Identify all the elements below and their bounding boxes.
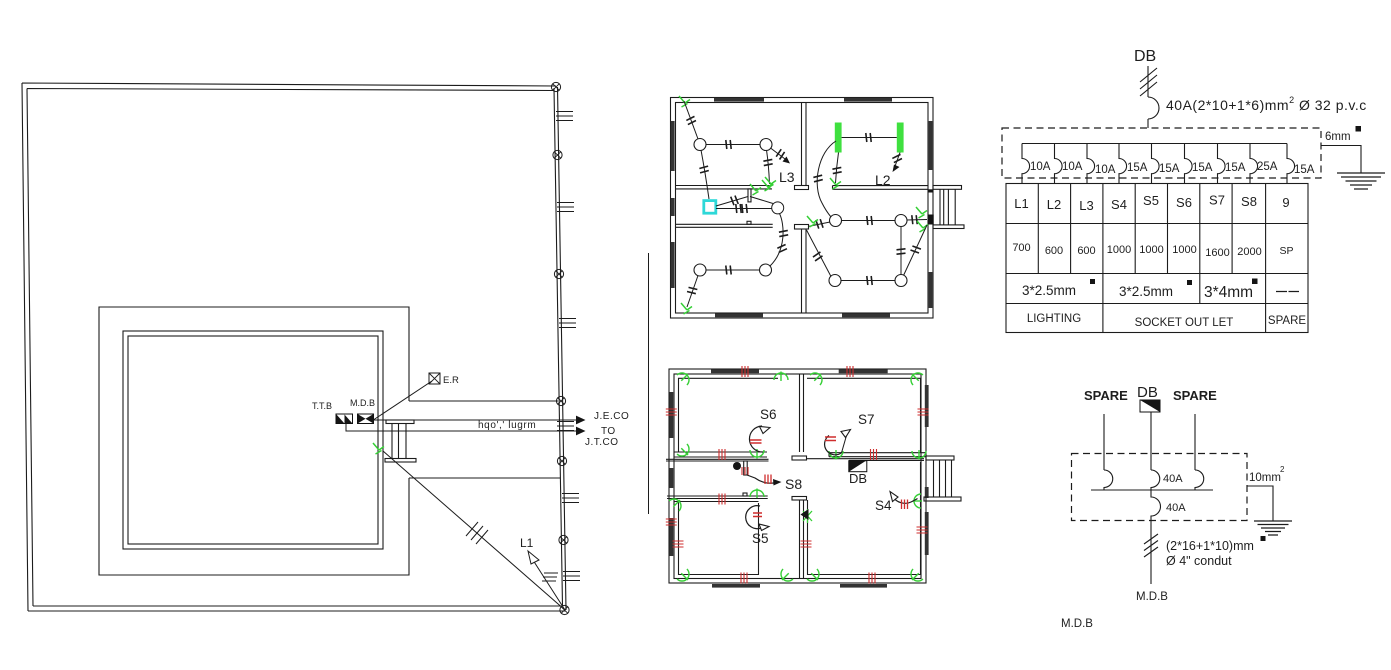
plan A stairs <box>933 186 964 229</box>
branch breaker 5 <box>1152 144 1160 184</box>
red tick at jamb <box>742 467 748 475</box>
tick <box>897 249 906 254</box>
fence conduit tick 2 <box>557 203 574 212</box>
earth symbol <box>1337 173 1385 189</box>
DB dashed enclosure <box>1002 128 1321 178</box>
svg-text:S6: S6 <box>760 407 777 422</box>
triple slash on L1 diagonal <box>466 522 488 544</box>
wire box to lamp A3 <box>716 208 772 210</box>
site stairs ladder <box>385 420 416 462</box>
plan A DB box on wall <box>928 215 934 225</box>
fluorescent tube 2 <box>897 123 904 153</box>
lamp A6 <box>830 215 842 227</box>
svg-text:10mm: 10mm <box>1249 472 1281 484</box>
wire A7 to DB <box>907 219 928 222</box>
building wall double rectangle <box>123 331 383 549</box>
mid wall upper <box>800 374 804 452</box>
wire A9 diagonal to DB <box>904 225 928 276</box>
green check bottom-left <box>681 303 692 314</box>
mid wall upper cap <box>792 456 807 460</box>
door jamb <box>748 189 751 202</box>
svg-text:1000: 1000 <box>1107 244 1131 256</box>
branch breaker 8 <box>1250 144 1258 184</box>
arrow J.T.CO <box>576 427 586 436</box>
svg-text:1000: 1000 <box>1139 244 1163 256</box>
tick <box>699 166 709 173</box>
wall nub <box>928 189 933 192</box>
svg-text:L2: L2 <box>875 172 891 188</box>
DB box symbol <box>1140 400 1160 412</box>
plan B stairs <box>924 456 961 501</box>
tick <box>816 219 823 229</box>
svg-text:S5: S5 <box>752 531 769 546</box>
switch S4 <box>890 492 918 510</box>
tick <box>832 167 841 173</box>
tick <box>866 133 871 142</box>
wire tube1-tube2 <box>842 137 897 139</box>
fence conduit tick 6 <box>563 572 580 581</box>
svg-text:S6: S6 <box>1176 195 1192 210</box>
svg-text:L1: L1 <box>1014 196 1028 211</box>
svg-text:10A: 10A <box>1095 164 1116 176</box>
ticks <box>736 204 741 213</box>
svg-text:Ø 4" condut: Ø 4" condut <box>1166 554 1232 568</box>
cable label sq <box>1261 536 1266 541</box>
TR room inner line <box>807 378 921 452</box>
svg-text:J.E.CO: J.E.CO <box>594 411 629 422</box>
BL notch <box>743 493 747 496</box>
wire box to jamb <box>716 197 748 207</box>
tick <box>867 276 872 285</box>
mid wall lower <box>800 500 804 579</box>
pole 6 <box>559 535 568 544</box>
E.R box <box>429 373 440 384</box>
green check top-left corner <box>679 96 690 107</box>
branch breaker 9 <box>1287 144 1295 184</box>
tick <box>731 195 739 205</box>
wire to J.E.CO <box>374 419 577 421</box>
fluorescent tube 1 <box>835 123 842 153</box>
M.D.B box (bowtie) <box>358 414 374 424</box>
svg-text:1600: 1600 <box>1205 247 1229 259</box>
door jamb with bar <box>744 461 748 475</box>
svg-text:LIGHTING: LIGHTING <box>1027 313 1081 325</box>
svg-text:40A: 40A <box>1166 502 1186 514</box>
mid wall lower cap <box>792 497 807 501</box>
svg-text:S7: S7 <box>858 412 875 427</box>
branch breaker 4 <box>1119 144 1127 184</box>
svg-text:10A: 10A <box>1062 161 1083 173</box>
overhead fence line east (double) <box>554 87 566 610</box>
BL room north wall <box>667 496 768 502</box>
fence conduit tick 3 <box>559 319 576 328</box>
lamp A1 <box>694 139 706 151</box>
BR room inner line <box>808 462 921 575</box>
svg-text:S8: S8 <box>785 476 802 492</box>
spare wire right <box>1194 414 1196 470</box>
main wire <box>1150 412 1152 470</box>
svg-text:SP: SP <box>1279 245 1293 257</box>
wire A8-A9 <box>841 280 896 282</box>
wire jamb to lamp A3 <box>750 197 773 204</box>
branch breaker 1 <box>1022 144 1030 184</box>
svg-text:T.T.B: T.T.B <box>312 401 332 411</box>
TL room south wall <box>674 452 767 457</box>
jamb notch <box>747 221 751 224</box>
bus bar mdb <box>1091 489 1213 491</box>
wire M.D.B to E.R <box>374 381 432 420</box>
svg-text:3*4mm: 3*4mm <box>1204 284 1253 301</box>
svg-text:SPARE: SPARE <box>1084 388 1128 403</box>
branch breaker 2 <box>1055 144 1063 184</box>
svg-text:L2: L2 <box>1047 197 1061 212</box>
switch S7 <box>825 430 851 455</box>
svg-text:SPARE: SPARE <box>1268 315 1306 327</box>
svg-text:(2*16+1*10)mm: (2*16+1*10)mm <box>1166 539 1254 553</box>
green check <box>830 178 841 189</box>
svg-text:600: 600 <box>1077 245 1095 257</box>
load table <box>1006 184 1308 333</box>
branch breaker 7 <box>1218 144 1226 184</box>
T.T.B box <box>336 414 353 424</box>
svg-text:M.D.B: M.D.B <box>350 398 375 408</box>
wall hall south (left) <box>676 224 773 227</box>
green checks near cap <box>807 216 818 227</box>
hall north lines <box>666 459 769 461</box>
TL room inner line <box>679 378 779 452</box>
ticks on arc <box>813 175 823 182</box>
switch S6 <box>749 426 770 452</box>
wire A6-A7 <box>841 220 896 222</box>
lamp A9 <box>895 275 907 287</box>
plan A inner wall <box>676 103 929 314</box>
pole 4 <box>556 396 565 405</box>
building outer rectangle <box>99 307 409 575</box>
tick <box>912 215 917 224</box>
svg-text:3*2.5mm: 3*2.5mm <box>1119 284 1173 299</box>
main breaker 40A <box>1148 97 1159 128</box>
pole bottom corner <box>560 605 569 614</box>
wire to J.T.CO <box>346 424 576 432</box>
svg-text:9: 9 <box>1282 195 1289 210</box>
corridor top line <box>409 400 558 402</box>
svg-text:S4: S4 <box>1111 197 1127 212</box>
wire A4-A5 <box>706 269 761 271</box>
branch breaker 6 <box>1185 144 1193 184</box>
fence conduit tick 5 <box>562 494 579 503</box>
svg-text:15A: 15A <box>1225 162 1246 174</box>
mid wall upper <box>802 103 807 186</box>
tick <box>867 216 872 225</box>
mid wall lower <box>802 229 807 313</box>
breaker labels <box>1030 161 1315 176</box>
ticks near L1 end <box>542 573 558 581</box>
earth wire <box>1321 146 1361 174</box>
ticks on arc <box>779 230 788 236</box>
plan A windows (filled bars) <box>671 98 933 317</box>
separator line <box>648 253 650 514</box>
svg-text:SPARE: SPARE <box>1173 388 1217 403</box>
svg-text:3*2.5mm: 3*2.5mm <box>1022 283 1076 298</box>
L3 arrowhead <box>783 157 791 164</box>
plan B interior walls <box>666 374 926 579</box>
lamp A3 <box>772 202 784 214</box>
svg-text:15A: 15A <box>1159 163 1180 175</box>
right room south wall <box>833 186 929 190</box>
cyan junction box <box>704 201 716 214</box>
green check <box>765 177 776 188</box>
wire corner to lamp A1 <box>684 101 698 139</box>
svg-text:TO: TO <box>601 426 616 437</box>
tick <box>726 266 731 275</box>
svg-text:DB: DB <box>849 471 867 486</box>
DB symbol plan B <box>849 461 867 472</box>
svg-text:DB: DB <box>1137 384 1158 401</box>
tick <box>686 116 696 124</box>
svg-text:15A: 15A <box>1192 162 1213 174</box>
mid wall lower cap <box>795 225 809 230</box>
mdb earth wire <box>1247 486 1273 521</box>
plan B windows <box>670 369 929 587</box>
lamp A4 <box>694 264 706 276</box>
wire A2 to L3 arrow <box>771 148 788 161</box>
DB feeder wire <box>1147 66 1149 97</box>
BL room inner line <box>679 502 759 575</box>
arc lamp A3 to lamp A5 <box>770 214 783 267</box>
plan B outer wall <box>669 369 926 583</box>
switch S8 wire <box>747 475 782 486</box>
tick <box>763 159 772 165</box>
L1 arrowhead <box>528 551 539 564</box>
wire A4 down-left <box>687 276 698 308</box>
site boundary outer line <box>22 83 566 611</box>
plan A interior walls <box>676 103 929 314</box>
red sockets plan B <box>742 366 748 377</box>
svg-text:15A: 15A <box>1127 162 1148 174</box>
svg-text:S7: S7 <box>1209 193 1225 208</box>
main breaker lower 40A <box>1151 490 1161 584</box>
tick <box>775 149 785 159</box>
spare wire left <box>1103 414 1105 470</box>
wire A2 down to wall <box>767 150 770 184</box>
black ceiling dot <box>733 462 741 470</box>
fence conduit tick 1 <box>556 112 573 121</box>
hall line right <box>806 459 924 461</box>
svg-text:M.D.B: M.D.B <box>1136 591 1168 603</box>
svg-text:6mm: 6mm <box>1325 131 1351 143</box>
TR room south wall <box>829 453 926 457</box>
L1 service diagonal <box>383 451 565 610</box>
lamp A5 <box>760 264 772 276</box>
green checks hall <box>750 184 761 195</box>
plan B inner wall <box>674 374 921 579</box>
wire A7 down <box>900 226 902 275</box>
L1 arrow line <box>531 557 565 610</box>
svg-text:SOCKET OUT LET: SOCKET OUT LET <box>1135 317 1234 329</box>
tick <box>726 140 731 149</box>
svg-text:600: 600 <box>1045 245 1063 257</box>
svg-text:700: 700 <box>1012 242 1030 254</box>
wire cap to lamp A8 <box>807 230 832 277</box>
svg-text:40A: 40A <box>1163 473 1183 485</box>
wire A1 down to box <box>701 150 709 199</box>
plan A outer wall <box>671 98 934 319</box>
green star near mid wall <box>803 509 812 523</box>
wire A1-A2 <box>706 144 761 146</box>
corridor south line <box>409 477 560 479</box>
svg-text:S5: S5 <box>1143 193 1159 208</box>
tick <box>687 286 697 294</box>
svg-text:2: 2 <box>1280 465 1285 474</box>
feeder slashes <box>1140 68 1157 96</box>
mdb earth symbol <box>1254 521 1292 535</box>
tick <box>910 245 920 254</box>
svg-text:25A: 25A <box>1257 161 1278 173</box>
fence conduit tick 4 <box>557 422 574 431</box>
svg-text:S4: S4 <box>875 498 892 513</box>
green check near stairs <box>373 443 384 454</box>
svg-text:J.T.CO: J.T.CO <box>585 437 619 448</box>
earth label sq <box>1356 126 1362 132</box>
svg-text:S8: S8 <box>1241 194 1257 209</box>
arrow J.E.CO <box>576 416 586 425</box>
tick <box>892 154 902 162</box>
wall hall north (left) <box>676 186 773 189</box>
green checks near DB <box>916 207 927 218</box>
svg-text:10A: 10A <box>1030 161 1051 173</box>
table row1 circuit names <box>1014 193 1289 214</box>
arc tube1 to lamp A6 <box>817 141 836 217</box>
lamp A2 <box>760 139 772 151</box>
table row2 loads <box>1012 242 1293 259</box>
mdb slashes <box>1144 534 1158 557</box>
mid wall upper cap <box>795 186 809 190</box>
branch breaker 3 <box>1087 144 1095 184</box>
black door arrow on mid wall <box>801 509 809 520</box>
lamp A8 <box>829 275 841 287</box>
mdb dashed enclosure <box>1072 454 1248 521</box>
svg-text:hqo',' lugrm: hqo',' lugrm <box>478 420 536 431</box>
svg-text:15A: 15A <box>1294 164 1315 176</box>
tick <box>812 252 822 261</box>
svg-text:2000: 2000 <box>1237 246 1261 258</box>
wire tube1 down to wall <box>836 153 839 184</box>
wire tube2 to L2 arrow <box>894 153 900 170</box>
svg-text:DB: DB <box>1134 48 1156 65</box>
switch S5 <box>746 506 769 531</box>
wire cap to lamp A6 <box>808 222 830 227</box>
lamp A7 <box>895 215 907 227</box>
pole 2 <box>553 150 562 159</box>
L2 arrowhead <box>893 165 900 173</box>
svg-text:E.R: E.R <box>443 375 459 386</box>
spare breaker right <box>1195 470 1204 490</box>
site boundary inner line <box>27 89 562 607</box>
svg-text:40A(2*10+1*6)mm2 Ø 32 p.v.c: 40A(2*10+1*6)mm2 Ø 32 p.v.c <box>1166 95 1367 113</box>
svg-text:1000: 1000 <box>1172 244 1196 256</box>
svg-text:L3: L3 <box>1079 198 1093 213</box>
svg-text:L3: L3 <box>779 169 795 185</box>
row3 dash <box>1276 291 1299 293</box>
bus bar <box>1022 143 1287 145</box>
green corner lamps plan B <box>676 369 693 386</box>
spare breaker left <box>1104 470 1113 490</box>
pole 3 <box>554 269 563 278</box>
main breaker upper 40A <box>1151 470 1160 490</box>
pole 5 <box>557 456 566 465</box>
svg-text:L1: L1 <box>520 536 534 550</box>
svg-text:M.D.B: M.D.B <box>1061 618 1093 630</box>
pole top corner <box>551 82 560 91</box>
